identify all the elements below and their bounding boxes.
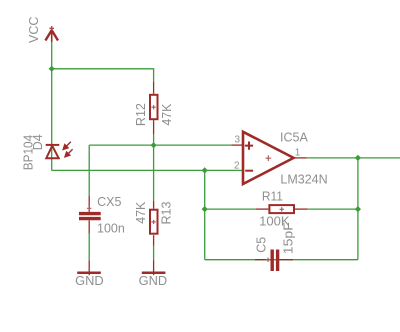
svg-text:1: 1 <box>295 148 301 159</box>
wire VCC vertical to diode and below <box>51 42 53 171</box>
light arrow 1 of D4 <box>63 142 71 150</box>
wire R13 drop <box>153 145 155 201</box>
light arrow 2 of D4 <box>65 149 73 157</box>
capacitor C5 <box>255 250 293 272</box>
resistor R13 <box>150 201 158 246</box>
svg-text:R11: R11 <box>262 189 283 203</box>
wire mid horizontal to op-amp pin3 <box>89 144 231 146</box>
power VCC symbol <box>45 26 58 42</box>
junction feedback tap <box>202 167 208 173</box>
svg-text:LM324N: LM324N <box>280 173 327 187</box>
ground GND under CX5 <box>77 260 101 275</box>
wire R11 left <box>205 208 256 210</box>
wire CX5 bottom to GND <box>88 234 90 261</box>
wire R13 bottom to GND <box>153 246 155 260</box>
wire op-amp output <box>307 157 400 159</box>
wire right feedback vertical <box>357 158 359 260</box>
wire left feedback vertical <box>204 170 206 259</box>
svg-text:100n: 100n <box>97 221 125 235</box>
svg-text:3: 3 <box>235 135 241 146</box>
wire R11 right <box>308 208 358 210</box>
svg-text:C5: C5 <box>254 237 268 253</box>
junction R11 right <box>355 206 361 212</box>
svg-text:47K: 47K <box>134 201 148 224</box>
ground GND under R13 <box>142 260 166 275</box>
svg-text:GND: GND <box>139 274 168 288</box>
wire bottom horizontal diode to op-amp pin2 <box>52 169 243 171</box>
svg-text:47K: 47K <box>160 103 174 126</box>
svg-text:15pF: 15pF <box>281 222 295 254</box>
capacitor CX5 <box>79 196 101 234</box>
wire C5 bottom horizontal <box>205 259 358 261</box>
svg-text:IC5A: IC5A <box>280 130 308 144</box>
wire R12 bottom to mid node <box>153 134 155 145</box>
wire top horizontal VCC to R12 <box>52 69 154 82</box>
photodiode D4 <box>46 145 60 158</box>
svg-text:D4: D4 <box>31 134 45 150</box>
resistor R12 <box>150 82 158 134</box>
svg-text:CX5: CX5 <box>97 195 121 209</box>
svg-text:R13: R13 <box>160 201 174 224</box>
op-amp IC5A <box>231 132 306 184</box>
svg-text:2: 2 <box>234 161 240 172</box>
svg-text:GND: GND <box>75 274 104 288</box>
junction mid node R12 R13 <box>151 142 157 148</box>
svg-text:VCC: VCC <box>27 17 41 43</box>
junction R11 left <box>202 206 208 212</box>
svg-text:R12: R12 <box>134 103 148 126</box>
wire CX5 drop <box>88 145 90 196</box>
junction output node <box>355 155 361 161</box>
resistor R11 <box>256 205 308 213</box>
junction VCC node <box>49 66 55 72</box>
